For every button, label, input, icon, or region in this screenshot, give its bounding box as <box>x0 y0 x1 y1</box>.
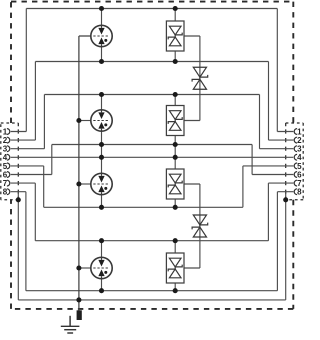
svg-text:8: 8 <box>297 188 302 197</box>
svg-text:8: 8 <box>3 188 8 197</box>
